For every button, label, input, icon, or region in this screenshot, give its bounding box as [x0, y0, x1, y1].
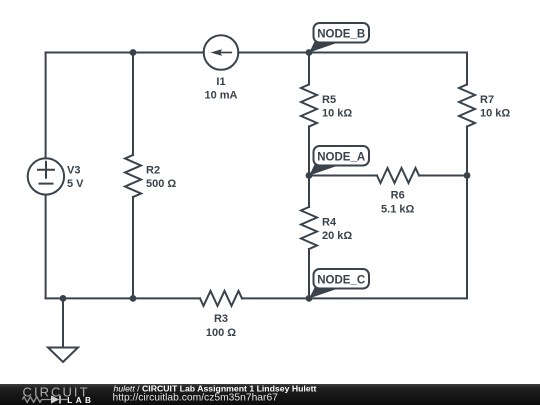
- svg-text:R3: R3: [214, 313, 228, 325]
- svg-text:NODE_A: NODE_A: [317, 151, 365, 163]
- svg-text:500 Ω: 500 Ω: [146, 178, 176, 190]
- svg-text:10 kΩ: 10 kΩ: [322, 108, 352, 120]
- svg-text:R6: R6: [391, 190, 405, 202]
- svg-text:R7: R7: [480, 94, 494, 106]
- wire right rail upper: [466, 53, 468, 85]
- svg-text:I1: I1: [216, 76, 225, 88]
- svg-text:R2: R2: [146, 165, 160, 177]
- junction node NODE_A: [306, 172, 313, 179]
- svg-text:LAB: LAB: [67, 396, 94, 405]
- resistor R5: [301, 85, 317, 127]
- svg-text:NODE_B: NODE_B: [317, 28, 365, 40]
- wire top-left horizontal: [46, 52, 204, 54]
- wire R6 right lead: [419, 175, 467, 177]
- wire R6 left lead: [309, 175, 377, 177]
- wire top-right horizontal: [238, 52, 467, 54]
- svg-text:R5: R5: [322, 94, 336, 106]
- resistor R7: [459, 85, 475, 127]
- svg-text:5 V: 5 V: [67, 178, 84, 190]
- junction node ground: [60, 295, 67, 302]
- I1 arrow line: [219, 52, 231, 54]
- voltage source V3 circle: [28, 158, 64, 194]
- footer bar: [0, 384, 540, 405]
- logo resistor zigzag: [22, 397, 51, 403]
- wire bottom-left horizontal: [46, 297, 200, 299]
- svg-text:10 kΩ: 10 kΩ: [480, 108, 510, 120]
- wire middle branch lower: [308, 249, 310, 298]
- wire R2 branch upper: [132, 53, 134, 156]
- resistor R6: [377, 168, 419, 183]
- V3 plus sign: [38, 162, 54, 178]
- wire left rail lower: [45, 195, 47, 299]
- resistor R4: [301, 207, 317, 249]
- wire bottom-right horizontal: [242, 297, 467, 299]
- resistor R3: [200, 291, 242, 306]
- logo diode symbol: [51, 395, 59, 403]
- node label NODE_A: [309, 146, 369, 176]
- ground triangle: [48, 348, 78, 363]
- svg-text:NODE_C: NODE_C: [317, 274, 365, 286]
- node label NODE_B: [309, 23, 369, 53]
- svg-text:5.1 kΩ: 5.1 kΩ: [381, 204, 414, 216]
- I1 arrow head: [211, 49, 223, 56]
- V3 minus sign: [40, 183, 53, 185]
- wire left rail upper: [45, 53, 47, 159]
- svg-text:20 kΩ: 20 kΩ: [322, 230, 352, 242]
- resistor R2: [125, 155, 141, 197]
- current source I1 circle: [204, 35, 239, 70]
- wire right rail lower: [466, 127, 468, 299]
- junction node NODE_B: [306, 49, 313, 56]
- wire middle branch mid: [308, 127, 310, 208]
- svg-text:100 Ω: 100 Ω: [206, 327, 236, 339]
- svg-text:10 mA: 10 mA: [204, 90, 237, 102]
- junction node top R2: [130, 49, 137, 56]
- junction node R6-right rail: [464, 172, 471, 179]
- wire middle branch upper: [308, 53, 310, 85]
- ground stem: [62, 298, 64, 347]
- junction node bottom R2: [130, 295, 137, 302]
- node label NODE_C: [309, 269, 369, 298]
- svg-text:http://circuitlab.com/cz5m35n7: http://circuitlab.com/cz5m35n7har67: [113, 393, 279, 404]
- svg-text:V3: V3: [67, 164, 80, 176]
- svg-text:R4: R4: [322, 217, 337, 229]
- wire R2 branch lower: [132, 197, 134, 298]
- junction node NODE_C: [306, 295, 313, 302]
